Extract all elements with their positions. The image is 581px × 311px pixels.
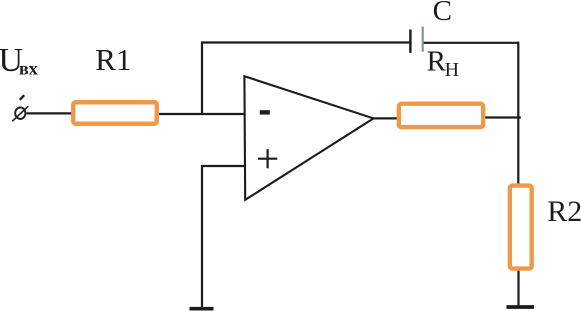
svg-text:R2: R2: [547, 195, 581, 228]
svg-text:вх: вх: [19, 59, 38, 79]
svg-text:C: C: [433, 0, 452, 27]
svg-text:Н: Н: [445, 59, 459, 81]
svg-text:R1: R1: [95, 42, 131, 77]
svg-text:R: R: [427, 46, 447, 78]
